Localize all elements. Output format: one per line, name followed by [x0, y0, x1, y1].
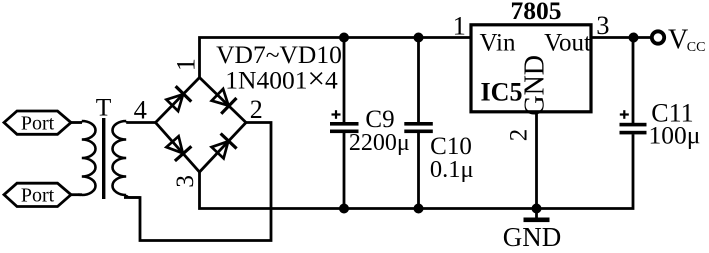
svg-text:7805: 7805: [511, 0, 562, 25]
svg-text:100μ: 100μ: [649, 120, 701, 149]
svg-text:V: V: [668, 24, 688, 55]
svg-text:CC: CC: [687, 40, 706, 55]
svg-text:Port: Port: [21, 113, 55, 135]
svg-text:Port: Port: [21, 185, 55, 207]
svg-text:2: 2: [505, 129, 532, 142]
svg-text:2: 2: [250, 95, 263, 124]
svg-text:Vout: Vout: [544, 29, 591, 56]
svg-text:3: 3: [170, 175, 199, 188]
svg-text:Vin: Vin: [480, 29, 516, 56]
svg-text:1: 1: [453, 11, 466, 41]
svg-text:1N4001×4: 1N4001×4: [225, 61, 338, 96]
svg-text:GND: GND: [520, 55, 551, 116]
svg-text:1: 1: [172, 58, 201, 71]
svg-text:IC5: IC5: [481, 77, 523, 106]
svg-text:T: T: [96, 93, 112, 122]
svg-text:C9: C9: [365, 106, 394, 133]
svg-text:4: 4: [134, 94, 147, 124]
svg-text:3: 3: [596, 10, 609, 40]
svg-text:GND: GND: [503, 222, 562, 252]
svg-text:0.1μ: 0.1μ: [430, 156, 474, 183]
svg-text:2200μ: 2200μ: [349, 130, 410, 156]
